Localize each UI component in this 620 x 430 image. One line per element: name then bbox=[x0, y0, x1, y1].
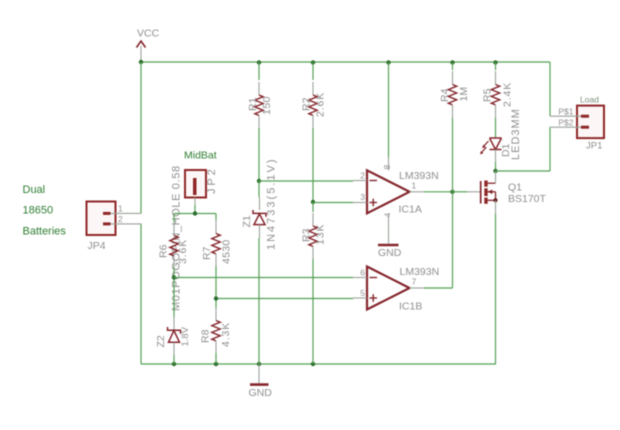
wire IC1A power pin8 to rail bbox=[388, 62, 390, 157]
svg-text:R4: R4 bbox=[439, 88, 451, 102]
wire IC1B plus input bbox=[216, 298, 353, 300]
ground symbol GND under IC1A bbox=[378, 245, 402, 259]
node junction bottom rail at x216 bbox=[214, 362, 218, 366]
svg-text:R7: R7 bbox=[201, 246, 213, 260]
node junction R2/R3/IC1A+ bbox=[311, 200, 315, 204]
wire Z1 top to node bbox=[258, 181, 260, 197]
svg-text:6: 6 bbox=[360, 268, 365, 278]
svg-text:4: 4 bbox=[383, 213, 393, 218]
svg-text:Z1: Z1 bbox=[241, 215, 253, 227]
wire R1 bottom to node bbox=[258, 128, 260, 181]
svg-text:VCC: VCC bbox=[137, 28, 160, 40]
svg-text:1.8V: 1.8V bbox=[180, 326, 191, 346]
text Dual 18650 Batteries bbox=[23, 184, 67, 238]
wire LED cathode to node bbox=[495, 162, 497, 171]
svg-text:2.6K: 2.6K bbox=[315, 92, 327, 117]
wire R2 bottom to node bbox=[312, 128, 314, 202]
node junction bottom rail at x174 bbox=[172, 362, 176, 366]
svg-text:Load: Load bbox=[580, 95, 599, 105]
node junction output net bbox=[450, 190, 454, 194]
wire IC1A output bbox=[424, 191, 453, 193]
wire IC1B output bbox=[424, 287, 453, 289]
wire IC1A plus input bbox=[313, 202, 353, 204]
wire gate from output net bbox=[453, 191, 468, 193]
svg-text:LED3MM: LED3MM bbox=[510, 108, 522, 160]
resistor R2 bbox=[301, 62, 327, 128]
wire Z1 bottom to rail bbox=[258, 238, 260, 364]
connector JP4 bbox=[87, 202, 142, 253]
svg-text:IC1A: IC1A bbox=[399, 204, 422, 216]
svg-text:MidBat: MidBat bbox=[184, 150, 217, 162]
svg-text:LM393N: LM393N bbox=[399, 170, 439, 182]
ground symbol GND bottom bbox=[249, 364, 273, 399]
resistor R4 bbox=[439, 62, 470, 118]
wire R4 bottom to output net bbox=[452, 118, 454, 192]
node junction top rail at x313 bbox=[311, 60, 315, 64]
wire R6 bottom to Z2 node bbox=[173, 267, 175, 278]
svg-text:150: 150 bbox=[261, 96, 273, 115]
resistor R6 bbox=[158, 222, 190, 267]
svg-text:P$2: P$2 bbox=[558, 118, 573, 128]
svg-text:2: 2 bbox=[360, 171, 365, 181]
svg-text:R1: R1 bbox=[247, 97, 259, 111]
node junction bottom rail at x313 bbox=[311, 362, 315, 366]
zener diode Z2 bbox=[155, 317, 191, 355]
node junction R1/Z1/IC1A- bbox=[257, 179, 261, 183]
wire IC1B minus input bbox=[174, 277, 353, 279]
wire R7 bottom to node bbox=[215, 266, 217, 299]
connector JP1 Load bbox=[550, 95, 604, 152]
svg-text:13K: 13K bbox=[315, 224, 327, 245]
wire MidBat horizontal bbox=[174, 213, 216, 215]
wire R5 bottom to LED bbox=[495, 118, 497, 138]
resistor R8 bbox=[200, 308, 233, 354]
svg-text:JP2: JP2 bbox=[206, 166, 218, 194]
svg-text:JP4: JP4 bbox=[88, 240, 106, 252]
resistor R1 bbox=[247, 62, 273, 128]
resistor R7 bbox=[201, 220, 233, 266]
node junction top rail at x259 bbox=[257, 60, 261, 64]
svg-text:JP1: JP1 bbox=[586, 141, 602, 152]
svg-text:R8: R8 bbox=[200, 329, 212, 343]
transistor Q1 BS170 bbox=[467, 171, 547, 214]
op-amp IC1B bbox=[353, 266, 439, 313]
svg-text:1: 1 bbox=[118, 204, 123, 214]
wire Q1 source to rail bbox=[495, 214, 497, 364]
connector JP2 bbox=[171, 165, 219, 311]
node junction top rail at x388 bbox=[386, 60, 390, 64]
wire left column VCC to JP4 pin1 bbox=[140, 62, 142, 214]
supply symbol VCC bbox=[137, 28, 160, 63]
wire drain node to load column bbox=[496, 170, 551, 172]
node junction top rail at x495 bbox=[493, 60, 497, 64]
zener diode Z1 bbox=[241, 158, 278, 251]
svg-text:GND: GND bbox=[378, 247, 402, 259]
wire VCC rail to P$1 bbox=[549, 62, 551, 116]
svg-text:1M: 1M bbox=[458, 87, 470, 102]
svg-text:Batteries: Batteries bbox=[23, 226, 67, 238]
wire JP2 pin to MidBat node bbox=[194, 205, 196, 214]
svg-text:Q1: Q1 bbox=[508, 182, 522, 194]
wire MidBat to R6 top bbox=[173, 214, 175, 223]
wire bottom rail bbox=[141, 363, 496, 365]
svg-text:GND: GND bbox=[249, 387, 273, 399]
node junction D1/Q1 drain/load bbox=[493, 169, 497, 173]
node junction MidBat bbox=[193, 211, 197, 215]
svg-text:1: 1 bbox=[412, 181, 417, 191]
svg-text:4.3K: 4.3K bbox=[220, 322, 232, 347]
wire R8 top to node bbox=[215, 299, 217, 308]
svg-text:P$1: P$1 bbox=[558, 107, 573, 117]
svg-text:4530: 4530 bbox=[221, 239, 233, 264]
op-amp IC1A bbox=[353, 157, 439, 244]
resistor R5 bbox=[482, 62, 514, 118]
svg-text:2: 2 bbox=[118, 214, 123, 224]
wire Z2 bottom to rail bbox=[173, 355, 175, 364]
node junction top rail at x452 bbox=[450, 60, 454, 64]
wire R8 bottom to rail bbox=[215, 353, 217, 364]
svg-text:8: 8 bbox=[382, 165, 392, 170]
svg-text:IC1B: IC1B bbox=[399, 301, 422, 313]
node junction top rail at x141 bbox=[139, 60, 143, 64]
svg-text:7: 7 bbox=[412, 277, 417, 287]
svg-text:R5: R5 bbox=[482, 88, 494, 102]
wire JP4 pin2 down left column bbox=[140, 224, 142, 365]
svg-text:3: 3 bbox=[360, 192, 365, 202]
node junction R7/R8/IC1B+ bbox=[214, 296, 218, 300]
wire Z2 top to node bbox=[173, 278, 175, 318]
svg-text:3.6K: 3.6K bbox=[177, 239, 189, 264]
svg-text:5: 5 bbox=[360, 288, 365, 298]
node junction Z2/R6/IC1B- bbox=[172, 275, 176, 279]
wire IC1A minus input bbox=[259, 180, 353, 182]
svg-text:Z2: Z2 bbox=[155, 335, 167, 347]
wire output net vertical bbox=[452, 192, 454, 288]
svg-text:R2: R2 bbox=[301, 97, 313, 111]
svg-text:18650: 18650 bbox=[23, 205, 54, 217]
svg-text:Dual: Dual bbox=[23, 184, 46, 196]
LED D1 bbox=[480, 108, 522, 162]
svg-text:R3: R3 bbox=[301, 228, 313, 242]
resistor R3 bbox=[301, 202, 327, 259]
node junction bottom rail at x259 bbox=[257, 362, 261, 366]
svg-text:1N4733(5.1V): 1N4733(5.1V) bbox=[266, 158, 278, 251]
svg-text:BS170T: BS170T bbox=[508, 193, 547, 205]
wire load column P$2 down bbox=[549, 127, 551, 171]
wire R3 bottom to rail bbox=[312, 259, 314, 364]
wire VCC top rail bbox=[141, 61, 550, 63]
wire MidBat to R7 top bbox=[215, 214, 217, 221]
svg-text:LM393N: LM393N bbox=[400, 266, 440, 278]
svg-text:R6: R6 bbox=[158, 244, 170, 258]
svg-text:2.4K: 2.4K bbox=[502, 82, 514, 107]
